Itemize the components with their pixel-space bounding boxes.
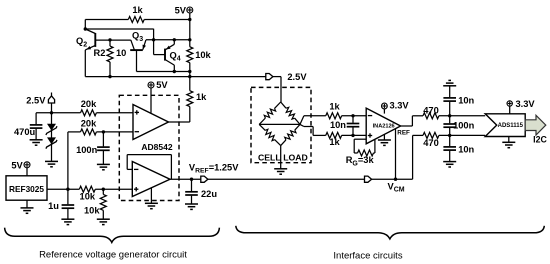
svg-text:100n: 100n (76, 145, 98, 155)
svg-text:ADS1115: ADS1115 (498, 123, 524, 129)
svg-text:20k: 20k (81, 99, 97, 109)
svg-text:10k: 10k (195, 50, 211, 60)
svg-text:1k: 1k (329, 137, 340, 147)
svg-text:2.5V: 2.5V (26, 96, 46, 106)
svg-text:RG=3k: RG=3k (346, 155, 375, 167)
svg-text:Q: Q (132, 31, 139, 41)
svg-text:VCM: VCM (388, 181, 405, 193)
svg-text:470: 470 (423, 138, 439, 148)
svg-text:1k: 1k (132, 5, 143, 15)
svg-text:LOAD: LOAD (283, 152, 308, 162)
svg-text:I2C: I2C (533, 135, 547, 145)
svg-text:100n: 100n (453, 120, 475, 130)
svg-text:R2: R2 (94, 48, 106, 58)
svg-text:INA2126: INA2126 (373, 124, 395, 130)
svg-text:Q: Q (170, 50, 177, 60)
svg-text:AD8542: AD8542 (141, 142, 172, 152)
svg-text:3: 3 (139, 36, 143, 43)
svg-text:470: 470 (423, 106, 439, 116)
svg-text:1k: 1k (196, 92, 207, 102)
svg-text:5V: 5V (11, 161, 23, 171)
svg-text:10k: 10k (84, 205, 100, 215)
svg-text:10n: 10n (458, 96, 474, 106)
svg-text:5V: 5V (156, 80, 168, 90)
svg-text:1k: 1k (329, 102, 340, 112)
svg-text:470u: 470u (14, 127, 36, 137)
svg-text:REF3025: REF3025 (9, 184, 44, 194)
svg-text:22u: 22u (201, 189, 217, 199)
svg-text:10k: 10k (80, 192, 96, 202)
svg-text:2: 2 (83, 42, 87, 49)
svg-text:10n: 10n (458, 144, 474, 154)
svg-text:10: 10 (116, 48, 126, 58)
svg-text:2.5V: 2.5V (287, 72, 307, 82)
svg-text:3.3V: 3.3V (516, 99, 536, 109)
svg-text:Interface circuits: Interface circuits (333, 251, 402, 262)
svg-text:Q: Q (76, 36, 83, 46)
svg-text:5V: 5V (175, 5, 187, 15)
svg-text:CELL: CELL (258, 152, 281, 162)
svg-text:REF: REF (397, 130, 410, 137)
svg-text:10n: 10n (330, 120, 346, 130)
svg-text:1u: 1u (48, 201, 59, 211)
svg-text:20k: 20k (81, 118, 97, 128)
svg-text:VREF=1.25V: VREF=1.25V (189, 162, 239, 174)
svg-text:3.3V: 3.3V (390, 100, 410, 110)
svg-text:4: 4 (177, 56, 181, 63)
svg-text:Reference voltage generator ci: Reference voltage generator circuit (39, 250, 187, 261)
